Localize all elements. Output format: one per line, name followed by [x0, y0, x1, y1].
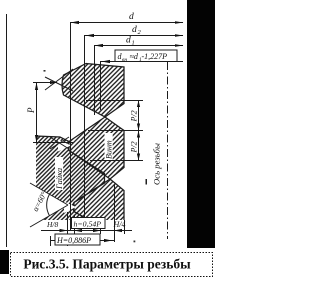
svg-text:P/2: P/2 [130, 141, 139, 153]
black scan square bottom-left [0, 250, 9, 274]
svg-text:Винт: Винт [105, 140, 114, 159]
crest X crossing middle tooth [50, 137, 69, 149]
P/2 dimensions right [86, 101, 143, 161]
svg-text:Ось резьбы: Ось резьбы [152, 143, 162, 185]
scan speck near top X [44, 70, 46, 72]
svg-text:Гайка: Гайка [54, 168, 64, 190]
small scan mark right of drawing [146, 179, 148, 185]
bottom extension lines [51, 185, 125, 246]
svg-text:P: P [26, 107, 36, 114]
scan background [0, 0, 215, 283]
figure left frame line [6, 14, 8, 247]
extension line of d through drawing [70, 22, 72, 231]
extension line of d2 through drawing [84, 35, 86, 220]
black scan band right [187, 0, 215, 248]
label h=0,54P boxed [72, 218, 106, 229]
scan speck bottom middle [134, 241, 136, 243]
thread axis dash-dot line [167, 62, 169, 239]
svg-text:≈d: ≈d [130, 52, 139, 61]
svg-text:H=0,886P: H=0,886P [56, 236, 91, 245]
svg-text:1: 1 [132, 40, 135, 47]
svg-text:d: d [126, 36, 131, 46]
svg-text:P/2: P/2 [130, 110, 139, 122]
alpha=60 flank extension lines at bottom tooth [30, 183, 68, 227]
caption box [11, 253, 213, 277]
svg-text:Рис.3.5. Параметры резьбы: Рис.3.5. Параметры резьбы [23, 257, 191, 272]
dimension line d [71, 22, 184, 24]
dimension line d_vn [101, 61, 183, 63]
svg-text:d: d [129, 12, 134, 22]
label Vint (screw) [105, 133, 114, 160]
boxed label d_vn = d1-1,227P [115, 50, 177, 62]
white clearance gap at middle crest [58, 140, 71, 152]
white clearance gap at bottom crest [64, 202, 76, 214]
dimension line d1 [94, 45, 183, 47]
P pitch dimension left [33, 83, 73, 143]
svg-text:d: d [132, 25, 137, 35]
svg-text:вн: вн [122, 57, 127, 63]
bottom dimension row 1: H/8, h=0,54P, H/4 [41, 230, 132, 232]
bottom dimension row 2: H=0,886P boxed [51, 240, 114, 242]
crest X crossing top tooth [45, 69, 73, 91]
label Gaika (nut) [54, 157, 64, 190]
svg-text:H/4: H/4 [113, 220, 126, 229]
white 60-degree angle wedge cut in nut [16, 175, 68, 235]
screw (винт) hatched thread profile [62, 64, 124, 221]
dimension line d2 [85, 35, 183, 37]
extension line of d_vn [100, 61, 102, 110]
svg-text:H/8: H/8 [46, 220, 59, 229]
extension line of d1 [94, 46, 96, 116]
svg-text:-1,227P: -1,227P [142, 52, 168, 61]
nut (гайка) hatched section [36, 136, 105, 220]
svg-text:h=0,54P: h=0,54P [74, 220, 102, 229]
